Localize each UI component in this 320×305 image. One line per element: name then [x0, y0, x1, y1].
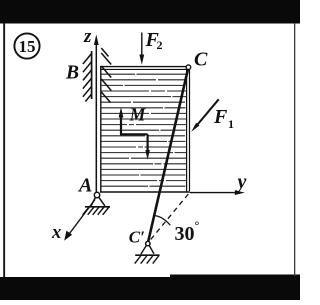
- svg-text:A: A: [77, 175, 92, 197]
- dashed projection line corner to C': [150, 194, 189, 241]
- right frame border: [294, 23, 295, 276]
- problem number circle 15: [14, 33, 39, 58]
- top black band (page edge): [0, 0, 300, 24]
- pin support at A : ground hatching: [83, 207, 109, 215]
- left frame border: [3, 23, 5, 278]
- svg-text:M: M: [129, 105, 147, 125]
- svg-text:C′: C′: [129, 227, 145, 246]
- plate corner hatching near B: [101, 48, 111, 103]
- bottom black band (page edge): [0, 277, 300, 300]
- svg-text:15: 15: [19, 37, 36, 56]
- wall line at B: [91, 51, 93, 99]
- node C circle: [186, 65, 191, 70]
- svg-text:2: 2: [157, 38, 163, 52]
- 30 degree angle arc: [154, 216, 170, 226]
- pin support at C' : ground hatching: [135, 256, 159, 264]
- moment M bent arrow: [120, 116, 148, 154]
- svg-text:30: 30: [175, 223, 195, 245]
- z axis line: [95, 42, 97, 194]
- svg-text:1: 1: [228, 117, 234, 131]
- pin support at C' : ground line: [135, 254, 159, 256]
- svg-text:z: z: [83, 26, 92, 47]
- force F2 arrow: [141, 33, 143, 57]
- rod C-C': [148, 69, 188, 242]
- pin support at A : circle: [94, 192, 99, 197]
- y axis line: [190, 192, 241, 194]
- svg-text:C: C: [194, 49, 208, 71]
- pin support at A : triangle legs: [91, 198, 96, 207]
- x axis line: [67, 200, 96, 238]
- svg-text:°: °: [195, 219, 200, 233]
- pin support at C' : circle: [146, 241, 150, 245]
- svg-text:F: F: [213, 106, 228, 128]
- plate bottom edge: [100, 191, 190, 193]
- svg-text:y: y: [236, 171, 247, 193]
- z axis arrowhead: [94, 35, 99, 46]
- plate right edge (double line): [186, 68, 188, 192]
- wall hatching at B: [83, 54, 92, 102]
- y axis arrowhead: [235, 190, 245, 195]
- svg-text:B: B: [65, 63, 79, 84]
- plate left edge: [100, 66, 102, 192]
- x axis arrowhead: [64, 231, 72, 241]
- plate top edge (double line): [100, 66, 188, 68]
- plate horizontal hatch lines: [101, 74, 186, 186]
- svg-text:x: x: [51, 223, 61, 243]
- force F1 arrow: [195, 99, 219, 127]
- pin support at C' : triangle legs: [141, 245, 147, 254]
- pin support at A : ground line: [85, 206, 110, 208]
